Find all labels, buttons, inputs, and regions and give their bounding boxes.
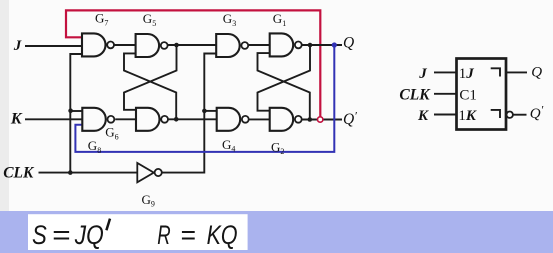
svg-text:1K: 1K [458, 108, 477, 124]
svg-text:Q: Q [343, 35, 354, 52]
svg-text:CLK: CLK [399, 86, 431, 103]
formula white box [28, 214, 248, 250]
Q' output bubble [507, 112, 513, 118]
CLK branch to G8 [70, 110, 82, 112]
master latch cross-coupling G6 out -> G5 in [124, 53, 176, 119]
slave latch cross-coupling G2 out -> G1 in [258, 53, 310, 119]
postponed output symbol top [491, 68, 500, 76]
NAND gate G1 [270, 33, 302, 56]
CLK input wire [434, 93, 457, 95]
Q' output wire [513, 114, 526, 116]
Q output wire [506, 71, 527, 73]
J input wire [25, 45, 82, 47]
NAND gate G2 [270, 108, 302, 131]
left gray strip [0, 0, 9, 211]
wire G6 out -> G4 [169, 118, 218, 120]
wire G4 out -> G2 [249, 118, 270, 120]
svg-text:=: = [52, 220, 71, 250]
red feedback wire Q' -> G7 [66, 10, 320, 117]
wire G5 out -> G3 [168, 44, 216, 46]
inverter G9 [137, 163, 161, 182]
inverted clock wire G9 out -> G3/G4 [162, 54, 217, 173]
NAND gate G8 [82, 108, 114, 131]
svg-text:J: J [13, 38, 22, 54]
slave latch cross-coupling G1 out -> G2 in [258, 45, 311, 111]
K input wire [25, 118, 82, 120]
blue junction dot on Q [332, 42, 337, 47]
postponed output symbol bottom [491, 110, 500, 118]
junction G8 clk branch [68, 108, 73, 113]
red terminal circle on Q' line [318, 117, 323, 122]
junction CLK [68, 170, 73, 175]
svg-text:KQ: KQ [207, 220, 238, 250]
blue feedback wire Q -> G8 [75, 45, 334, 152]
wire G1 out -> Q [302, 44, 342, 46]
svg-text:1J: 1J [459, 66, 475, 82]
junction G6 out [174, 117, 179, 122]
J input wire [434, 71, 457, 73]
wire G3 out -> G1 [249, 44, 270, 46]
branch to G4 [204, 110, 217, 112]
K input wire [434, 114, 457, 116]
formula band [0, 211, 553, 253]
CLK input wire [39, 172, 138, 174]
svg-text:CLK: CLK [3, 165, 35, 182]
junction G2 out [308, 117, 313, 122]
junction G5 out [174, 43, 179, 48]
wire G8 out -> G6 [115, 118, 136, 120]
svg-text:R: R [157, 220, 170, 250]
svg-text:Q: Q [531, 65, 542, 81]
wire G7 out -> G5 [115, 44, 137, 46]
NAND gate G7 [82, 33, 114, 56]
JK block body [457, 59, 507, 130]
NAND gate G4 [217, 108, 249, 131]
NAND gate G5 [136, 34, 168, 57]
svg-text:J: J [418, 66, 427, 82]
svg-text:=: = [180, 220, 195, 250]
junction G1 out [308, 43, 313, 48]
master latch cross-coupling G5 out -> G6 in [124, 45, 177, 110]
svg-text:K: K [10, 110, 23, 127]
svg-text:K: K [417, 108, 429, 124]
formula prime mark [106, 219, 110, 231]
CLK vertical to G7/G8 [70, 54, 82, 173]
svg-text:JQ: JQ [74, 220, 104, 250]
NAND gate G3 [216, 34, 248, 57]
wire G2 out -> Q' [302, 119, 342, 121]
svg-text:S: S [32, 220, 47, 250]
junction G4 branch [202, 109, 207, 114]
NAND gate G6 [136, 108, 168, 131]
svg-text:C1: C1 [459, 88, 477, 104]
